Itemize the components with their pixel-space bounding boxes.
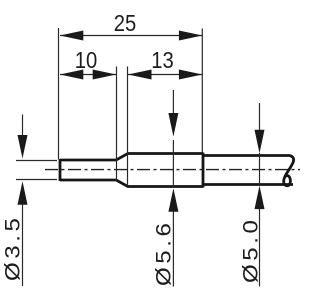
svg-text:25: 25 — [114, 10, 136, 37]
svg-text:10: 10 — [75, 47, 97, 74]
svg-text:Ø5.6: Ø5.6 — [151, 219, 175, 286]
svg-text:Ø3.5: Ø3.5 — [0, 214, 24, 281]
svg-text:Ø5.0: Ø5.0 — [238, 216, 262, 283]
svg-text:13: 13 — [151, 47, 173, 74]
